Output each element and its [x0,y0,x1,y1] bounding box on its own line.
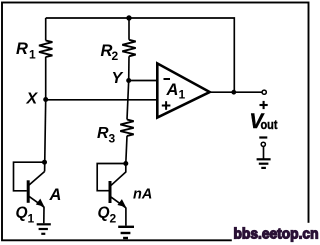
wire to ground [263,147,265,159]
resistor R3 [97,81,134,164]
svg-text:1: 1 [29,48,36,62]
wire top rail with feedback drop [46,18,235,92]
svg-text:Q: Q [16,205,28,222]
node Q1 base-collector junction [42,160,47,165]
node Y [126,78,131,83]
watermark white backing box [232,223,320,245]
svg-text:1: 1 [179,88,186,102]
resistor R1 [16,18,52,100]
node X [43,97,48,102]
node Q2 base-collector junction [123,161,128,166]
diode-connect loop wire [97,164,126,191]
svg-text:A: A [166,81,179,99]
op-amp minus sign [164,78,171,80]
svg-text:bbs.eetop.cn: bbs.eetop.cn [234,226,319,243]
svg-text:1: 1 [28,212,35,226]
svg-text:Y: Y [112,70,124,87]
svg-text:A: A [49,186,62,204]
op-amp plus sign [162,101,171,110]
svg-text:X: X [26,91,39,108]
base bar [27,180,30,203]
collector diagonal [110,164,126,187]
output reference terminal circle [261,142,265,146]
wire op-amp output [210,91,262,93]
svg-text:3: 3 [109,132,116,146]
transistor Q1 [14,100,62,234]
emitter wire down [43,207,45,223]
svg-text:2: 2 [112,49,119,63]
svg-text:R: R [16,40,28,58]
output terminal open circle [262,90,266,94]
svg-text:Q: Q [98,205,110,222]
ground (output) [257,159,271,168]
svg-text:out: out [261,118,279,132]
collector wire from X [45,100,46,172]
diode-connect loop wire [14,162,45,191]
svg-text:R: R [97,125,109,142]
op-amp A1 [157,63,209,117]
svg-text:nA: nA [133,187,152,203]
ground (Q2) [118,227,134,238]
svg-text:2: 2 [110,212,117,226]
ground (Q1) [37,224,51,234]
wire X to op-amp non-inverting input [46,99,157,101]
emitter arrowhead [117,199,126,207]
node output junction [231,90,236,95]
resistor R2 [101,18,136,81]
emitter diagonal [110,196,126,208]
emitter wire down [125,208,127,226]
node junction R2 top [126,15,131,20]
emitter arrowhead [36,199,45,207]
wire Y to op-amp inverting input [129,80,157,82]
Vout plus sign [260,101,268,109]
emitter diagonal [28,196,44,208]
base bar [109,181,112,203]
collector diagonal [28,172,44,186]
transistor Q2 [97,161,152,238]
Vout minus sign [259,136,267,138]
